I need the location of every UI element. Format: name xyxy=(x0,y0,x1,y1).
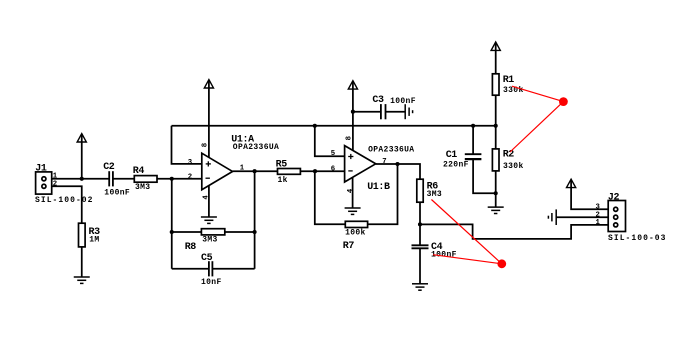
svg-text:J2: J2 xyxy=(608,192,620,203)
svg-text:SIL-100-03: SIL-100-03 xyxy=(608,234,667,243)
wire U1:A pin4 to ground xyxy=(208,185,210,216)
svg-text:R8: R8 xyxy=(185,242,197,253)
wire U1:B pin4 to ground xyxy=(352,177,354,207)
wire R7 right to U1:B output xyxy=(368,164,398,224)
svg-text:1: 1 xyxy=(53,173,58,181)
op-amp U1:B minus sign xyxy=(348,170,352,172)
junction J1 pin1 / VCC xyxy=(80,177,84,181)
svg-text:1k: 1k xyxy=(278,176,288,185)
svg-text:R5: R5 xyxy=(276,160,288,171)
svg-text:C3: C3 xyxy=(372,95,384,106)
svg-text:7: 7 xyxy=(382,158,386,166)
wire U1:B pin6 down to R7 xyxy=(315,171,346,224)
svg-text:2: 2 xyxy=(188,174,192,182)
junction R4 / U1:A pin2 / feedback xyxy=(170,177,174,181)
svg-text:10nF: 10nF xyxy=(201,278,222,287)
wire U1:A output to R5 xyxy=(233,170,278,172)
resistor R3 xyxy=(79,223,86,247)
svg-text:4: 4 xyxy=(203,195,211,200)
svg-text:3: 3 xyxy=(596,204,601,212)
svg-text:8: 8 xyxy=(346,136,354,140)
VCC arrow U1:B pin8 xyxy=(348,81,357,89)
svg-text:220nF: 220nF xyxy=(443,160,469,169)
svg-text:OPA2336UA: OPA2336UA xyxy=(368,146,414,155)
resistor R1 xyxy=(492,74,499,95)
svg-text:R7: R7 xyxy=(343,241,355,252)
wire R1 to R2 xyxy=(495,95,497,149)
svg-text:100nF: 100nF xyxy=(104,189,130,198)
wire R6 to C4 xyxy=(419,202,421,245)
junction feedback left / R8 xyxy=(170,230,174,234)
junction rail / C1 xyxy=(471,124,475,128)
svg-text:3: 3 xyxy=(188,159,193,167)
capacitor C3 xyxy=(381,104,386,119)
wire VCC drop to J1 pin1 net xyxy=(81,134,83,179)
svg-text:R1: R1 xyxy=(503,75,515,86)
VCC arrow R1 xyxy=(491,42,500,50)
wire C5 left xyxy=(172,268,209,270)
resistor R7 xyxy=(345,221,367,227)
wire U1:B pin8 to VCC xyxy=(352,81,354,151)
junction feedback right / R8 xyxy=(253,230,257,234)
op-amp U1:A plus sign xyxy=(206,161,211,166)
op-amp U1:A minus sign xyxy=(206,177,210,179)
wire J1 pin1 to C2 xyxy=(52,178,109,180)
wire R8 left xyxy=(172,231,202,233)
wire feedback right vertical to U1:A output xyxy=(254,171,256,269)
wire C2 to R4 xyxy=(113,178,135,180)
wire bias rail xyxy=(172,125,496,127)
wire R4 to U1:A pin2 xyxy=(157,178,202,180)
wire C1 top xyxy=(472,126,474,154)
op-amp U1:B xyxy=(345,146,376,182)
svg-text:OPA2336UA: OPA2336UA xyxy=(233,143,279,152)
ground R3 xyxy=(74,277,90,283)
wire R5 to U1:B pin6 xyxy=(300,170,344,172)
ground C3 right xyxy=(405,104,412,119)
svg-text:U1:B: U1:B xyxy=(367,182,390,193)
wire ground to J2 pin2 xyxy=(556,216,608,218)
connector J1 xyxy=(36,172,52,194)
ground C4 xyxy=(412,284,428,290)
svg-text:J1: J1 xyxy=(35,164,47,175)
svg-text:6: 6 xyxy=(331,165,335,173)
svg-text:3M3: 3M3 xyxy=(427,190,442,199)
wire U1:A pin2 junction down to feedback xyxy=(171,179,173,269)
VCC arrow U1:A pin8 xyxy=(204,80,213,88)
wire bias rail to U1:A pin3 xyxy=(172,126,202,164)
wire U1:B output to R6 xyxy=(376,164,420,179)
svg-text:1M: 1M xyxy=(89,236,99,245)
svg-text:C5: C5 xyxy=(201,253,213,264)
red annotation line to R1 value xyxy=(512,86,563,101)
junction U1:B pin8 / C3 xyxy=(351,110,355,114)
VCC arrow J2 pin3 xyxy=(567,179,576,187)
resistor R4 xyxy=(134,176,157,183)
junction U1:B output / R7 xyxy=(395,162,399,166)
svg-text:4: 4 xyxy=(347,188,355,193)
capacitor C2 xyxy=(109,171,113,186)
VCC arrow J1 net xyxy=(77,134,86,142)
wire bias rail to U1:B pin5 xyxy=(315,126,345,157)
wire R2 to ground xyxy=(495,171,497,207)
wire C3 left xyxy=(353,111,381,113)
wire U1:A pin8 to VCC xyxy=(208,80,210,158)
wire R8 right xyxy=(225,231,255,233)
ground J2 pin2 left xyxy=(548,209,556,225)
resistor R8 xyxy=(201,229,224,235)
svg-text:R2: R2 xyxy=(503,150,515,161)
wire C3 right to ground xyxy=(386,111,405,113)
svg-text:100nF: 100nF xyxy=(390,97,416,106)
svg-text:SIL-100-02: SIL-100-02 xyxy=(35,196,94,205)
svg-text:5: 5 xyxy=(331,150,335,158)
ground U1:B pin4 xyxy=(345,208,361,214)
svg-text:330k: 330k xyxy=(503,162,524,171)
wire C4 to ground xyxy=(419,249,421,284)
resistor R5 xyxy=(278,169,301,175)
wire R3 to ground xyxy=(81,247,83,277)
connector J2 xyxy=(608,201,625,232)
resistor R2 xyxy=(492,149,499,171)
svg-text:8: 8 xyxy=(202,143,210,147)
wire VCC to R1 xyxy=(495,42,497,73)
svg-text:1: 1 xyxy=(240,164,245,172)
wire C5 right xyxy=(212,268,254,270)
svg-text:3M3: 3M3 xyxy=(202,236,217,245)
capacitor C5 xyxy=(209,261,213,276)
op-amp U1:B plus sign xyxy=(348,154,353,159)
red annotation line to R6 value xyxy=(431,200,501,264)
svg-text:R4: R4 xyxy=(133,166,145,177)
svg-text:C2: C2 xyxy=(103,162,115,173)
red annotation line to R2 value xyxy=(510,102,563,152)
wire J1 pin2 to R3 xyxy=(52,186,82,223)
resistor R6 xyxy=(417,179,423,202)
op-amp U1:A xyxy=(202,153,233,190)
junction U1:A output / feedback xyxy=(253,169,257,173)
junction C1 / R2 ground xyxy=(494,191,498,195)
junction R6 / C4 / J2 wire xyxy=(418,222,422,226)
junction rail / R1 R2 xyxy=(494,124,498,128)
junction R5 / U1:B pin6 / R7 xyxy=(313,169,317,173)
ground U1:A pin4 xyxy=(201,217,217,223)
wire R6/C4 node to J2 pin1 xyxy=(420,224,608,239)
capacitor C1 xyxy=(465,154,482,159)
wire C1 bottom to ground node xyxy=(473,160,496,194)
wire VCC to J2 pin3 xyxy=(571,180,608,210)
red annotation dot near R6 C4 xyxy=(497,259,506,268)
svg-text:1: 1 xyxy=(596,219,601,227)
ground bias divider xyxy=(488,207,504,213)
red annotation line to C4 value xyxy=(433,255,502,264)
capacitor C4 xyxy=(412,245,429,248)
svg-text:100k: 100k xyxy=(345,228,366,237)
svg-text:2: 2 xyxy=(53,181,57,189)
svg-text:3M3: 3M3 xyxy=(135,183,150,192)
junction rail / U1:B pin5 xyxy=(313,124,317,128)
red annotation dot near R1 R2 xyxy=(559,97,568,106)
